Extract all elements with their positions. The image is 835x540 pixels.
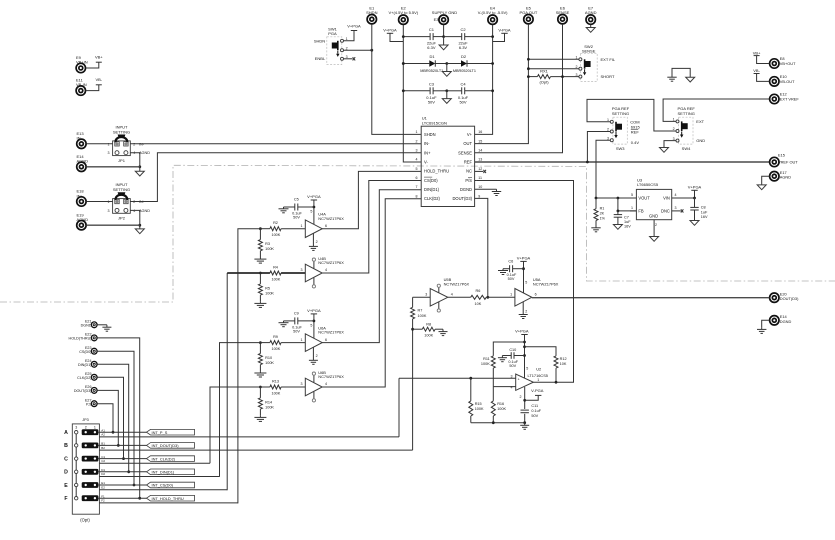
svg-text:VREF OUT: VREF OUT (778, 160, 798, 165)
turret E6 SENSE (558, 15, 567, 24)
capacitor C3 (403, 90, 430, 92)
svg-text:MBR0520LT1: MBR0520LT1 (453, 69, 476, 73)
wire U4B input from JP3 E (226, 273, 228, 490)
svg-text:VB-OUT: VB-OUT (780, 79, 795, 84)
wire SW3 pin2 to REF (587, 132, 610, 163)
svg-text:NC7WZ17P6X: NC7WZ17P6X (318, 330, 344, 335)
svg-text:R2: R2 (273, 221, 278, 225)
turret E5 PGA OUT (524, 15, 533, 24)
svg-text:C8: C8 (701, 206, 706, 210)
svg-text:C6: C6 (508, 259, 513, 263)
buffer U5B NC7WZ17P6X (430, 289, 448, 307)
net flag INT_HOLD_THRU (147, 495, 195, 501)
resistor R1 (594, 209, 598, 221)
ground under R10 (259, 365, 261, 372)
svg-text:VOUT: VOUT (638, 196, 650, 201)
net flag INT_CLK(D2) (147, 456, 195, 462)
svg-text:R15: R15 (475, 402, 482, 406)
ground under E3 node (443, 37, 445, 45)
JP3 row E jumper (82, 482, 99, 488)
capacitor C11 0.1uF (524, 400, 526, 409)
svg-text:R8: R8 (426, 322, 431, 326)
wire JP3 pin3 chain (75, 474, 77, 484)
wire JP1 pin2 to U1 IN- (130, 143, 421, 145)
svg-text:3: 3 (416, 149, 418, 153)
svg-text:D2: D2 (461, 54, 467, 59)
svg-text:C11: C11 (531, 404, 538, 408)
resistor R16 100K (492, 387, 494, 401)
wire E27 to JP3 (97, 404, 113, 433)
svg-text:-: - (518, 386, 519, 390)
turret E21 DGND (91, 322, 97, 328)
svg-text:NC7WZ17P6X: NC7WZ17P6X (318, 374, 344, 379)
turret E22 HOLD(THRU) (91, 335, 97, 341)
turret E7 AGND (586, 15, 595, 24)
turret E24 DIN(D1) (91, 361, 97, 367)
ground under R14 (259, 409, 261, 416)
resistor R9 100K (270, 341, 281, 345)
svg-text:A2: A2 (101, 433, 105, 437)
turret E26 DOUT(D3) (91, 388, 97, 394)
wire U6A out to U1 DIN (322, 190, 421, 343)
turret E10 VB-OUT (770, 77, 779, 86)
svg-text:IN+: IN+ (77, 193, 84, 198)
svg-text:6: 6 (535, 293, 537, 297)
switch SW1 PGA (327, 37, 342, 65)
svg-text:DOUT(D3): DOUT(D3) (452, 196, 472, 201)
switch SW4 PGA REF SETTING (679, 117, 693, 144)
svg-text:5: 5 (525, 280, 527, 284)
buffer U5A NC7WZ17P6X (515, 289, 532, 307)
JP3 row B pin3 (75, 444, 78, 447)
wire E5 to SW2 pin2 (528, 68, 579, 70)
svg-text:R4: R4 (273, 265, 278, 269)
resistor RX1 (Opt) (528, 76, 537, 78)
svg-text:NC7WZ17P6X: NC7WZ17P6X (533, 281, 559, 286)
svg-text:11: 11 (478, 176, 482, 180)
wire U4B out to U1 CS (322, 181, 421, 274)
turret E12 EXT VREF (770, 94, 779, 103)
power flag V+PGA at SW1 (351, 30, 357, 32)
svg-text:R12: R12 (560, 357, 567, 361)
wire JP3 row A pin2 branch (99, 436, 399, 438)
turret E25 CLK(D2) (91, 374, 97, 380)
svg-text:E15: E15 (778, 153, 785, 158)
svg-text:4: 4 (325, 382, 327, 386)
svg-text:DOUT(D3): DOUT(D3) (74, 389, 92, 393)
svg-text:5: 5 (526, 367, 528, 371)
svg-text:C9: C9 (294, 311, 299, 315)
svg-text:IN-: IN- (424, 141, 430, 146)
wire JP2 pin2 to U1 IN+ (130, 153, 421, 202)
resistor R4 100K (270, 271, 281, 275)
svg-text:PGA: PGA (328, 31, 337, 36)
wire E6 vertical to U1 pin14 (475, 24, 563, 153)
svg-text:DGND: DGND (780, 319, 792, 324)
wire U2 pin3 row (399, 377, 516, 379)
U1 pin9 DOUT wire down (475, 198, 488, 297)
wire E25 to JP3 (97, 377, 123, 458)
wire JP3 pin3 chain (75, 434, 77, 444)
wire JP3 pin3 chain (75, 487, 77, 497)
svg-text:5: 5 (310, 210, 312, 214)
node at R9 (259, 341, 262, 344)
svg-text:SETTING: SETTING (113, 187, 130, 192)
power flag VB+ (96, 61, 102, 63)
svg-text:VB+IN: VB+IN (76, 60, 88, 65)
svg-text:C1: C1 (429, 27, 435, 32)
svg-text:1: 1 (416, 130, 418, 134)
JP3 row F pin3 (75, 497, 78, 500)
wire JP1 pin4 to ground (130, 153, 140, 172)
wire E11 to VB- flag (86, 85, 99, 91)
svg-text:4: 4 (416, 158, 418, 162)
wire SW1 pin1 to V+PGA flag (344, 31, 355, 41)
diode D1 MBR0520LT1 (403, 63, 429, 65)
turret E2 V+ (399, 15, 408, 24)
svg-text:16: 16 (478, 130, 482, 134)
svg-text:2: 2 (525, 310, 527, 314)
svg-text:F2: F2 (101, 499, 105, 503)
svg-text:10K: 10K (475, 302, 482, 306)
svg-text:INT_CLK(D2): INT_CLK(D2) (152, 456, 176, 461)
wire E3 vertical (443, 25, 445, 37)
resistor R8 100K (413, 328, 423, 330)
svg-text:AGND: AGND (77, 159, 89, 164)
svg-text:1: 1 (537, 378, 539, 382)
svg-text:1uF: 1uF (701, 210, 708, 214)
U3 pin3 DNC (672, 210, 681, 212)
svg-text:V-(0.5V to -5.5V): V-(0.5V to -5.5V) (478, 10, 508, 15)
svg-text:100K: 100K (475, 407, 484, 411)
wire A branch up to U2 pin3 (398, 378, 400, 437)
svg-text:VB+OUT: VB+OUT (780, 61, 796, 66)
svg-text:AGND: AGND (77, 217, 89, 222)
svg-text:1: 1 (631, 206, 633, 210)
svg-text:R9: R9 (273, 335, 278, 339)
U1 pin12 NC stub (475, 170, 484, 172)
ground at C9 (283, 321, 285, 323)
svg-text:REF: REF (631, 130, 640, 135)
net flag INT_DIN(D1) (147, 469, 195, 475)
svg-text:15: 15 (478, 139, 482, 143)
diode D2 MBR0520LT1 (447, 63, 461, 65)
svg-text:CS(D0): CS(D0) (424, 178, 438, 183)
svg-text:SHORT: SHORT (601, 74, 615, 79)
resistor R5 100K (259, 273, 261, 284)
svg-text:C10: C10 (509, 348, 516, 352)
turret E14 DGND (770, 316, 779, 325)
svg-text:VB-IN: VB-IN (76, 82, 87, 87)
svg-text:2: 2 (316, 354, 318, 358)
wire E5 to SW2 pin1 (528, 58, 579, 60)
wire JP3 row A to flag (98, 431, 146, 433)
svg-text:SUPPLY GND: SUPPLY GND (432, 10, 458, 15)
voltage reference U3 LT6650CS5 box (636, 189, 671, 219)
turret E15 VREF OUT (770, 157, 779, 166)
wire JP3 row B to flag (98, 444, 146, 446)
wire SW1 pin2 to E1 (344, 49, 372, 51)
svg-text:INT_DOUT(D3): INT_DOUT(D3) (152, 443, 180, 448)
svg-text:SETTING: SETTING (113, 129, 130, 134)
svg-text:HOLD_THRU: HOLD_THRU (424, 169, 449, 174)
svg-text:R7: R7 (418, 309, 423, 313)
svg-text:2K: 2K (600, 211, 605, 215)
buffer U6A NC7WZ17P6X (305, 334, 322, 352)
svg-text:1uF: 1uF (624, 220, 631, 224)
turret E20 DOUT(D3) (770, 293, 779, 302)
svg-text:LT6650CS5: LT6650CS5 (637, 182, 659, 187)
turret E9 VB+IN (76, 63, 85, 72)
svg-text:GND: GND (649, 214, 658, 219)
resistor R10 100K (259, 343, 261, 354)
svg-text:R10: R10 (265, 356, 272, 360)
svg-text:B: B (64, 443, 68, 449)
svg-text:DGND: DGND (81, 324, 92, 328)
svg-text:100K: 100K (481, 362, 490, 366)
ground pin2 U6A (312, 347, 314, 360)
wire E26 to JP3 (97, 390, 118, 445)
svg-text:SW3: SW3 (616, 146, 625, 151)
wire JP3 row F pin2 branch (99, 502, 238, 504)
svg-text:JP1: JP1 (118, 158, 126, 163)
ground at R8 (442, 329, 444, 331)
switch SW3 PGA REF SETTING (613, 117, 627, 144)
JP3 row F jumper (82, 495, 99, 501)
svg-text:4: 4 (675, 193, 677, 197)
svg-text:AGND: AGND (139, 209, 150, 213)
svg-text:50V: 50V (531, 414, 538, 418)
svg-text:VB+: VB+ (95, 55, 103, 60)
turret E18 IN+ (77, 197, 86, 206)
resistor R11 100K (493, 342, 524, 356)
wire E23 to JP3 (97, 351, 134, 485)
ground at C10 (501, 356, 503, 358)
svg-text:FB: FB (638, 209, 644, 214)
wire U2 output to P/S (476, 181, 573, 383)
jumper block JP3 outline (72, 424, 99, 514)
ground under R3 (259, 251, 261, 258)
svg-text:(Opt): (Opt) (80, 518, 90, 523)
wire U5B out to R6 (448, 296, 471, 298)
svg-text:EXT FIL: EXT FIL (601, 57, 616, 62)
resistor R7 100K (412, 297, 414, 307)
svg-text:SETTING: SETTING (612, 111, 629, 116)
wire U6A input from JP3 D (220, 343, 261, 477)
wire JP3 row D to flag (98, 471, 146, 473)
JP3 row A jumper (82, 429, 99, 435)
ground at E7 (590, 25, 592, 28)
svg-text:6: 6 (325, 338, 327, 342)
svg-text:50V: 50V (508, 277, 515, 281)
ground under C3 C4 node (446, 91, 448, 99)
wire E9 to VB+ flag (86, 62, 99, 68)
svg-text:V-: V- (424, 160, 429, 165)
wire SW3 pin3 to U3 VOUT (596, 140, 610, 198)
svg-text:1%: 1% (600, 216, 606, 220)
svg-text:A: A (64, 430, 68, 436)
svg-text:INT_HOLD_THRU: INT_HOLD_THRU (152, 496, 184, 501)
wire JP3 row D pin2 branch (99, 476, 219, 478)
svg-text:2: 2 (316, 240, 318, 244)
wire E14 to ground node (86, 166, 139, 168)
svg-text:AGND: AGND (780, 175, 791, 180)
svg-text:VB+: VB+ (753, 50, 761, 55)
svg-text:OUT: OUT (463, 141, 472, 146)
resistor R14 100K (259, 387, 261, 398)
svg-text:100K: 100K (418, 314, 427, 318)
svg-text:D1: D1 (429, 54, 435, 59)
wire U5B input (413, 296, 431, 298)
svg-text:V-PGA: V-PGA (531, 388, 544, 393)
wire SW4 pin1 to E12 (663, 99, 769, 121)
wire JP2 pin4 to ground (130, 210, 140, 229)
svg-text:DGND: DGND (460, 187, 472, 192)
wire E13 to JP1 (86, 143, 112, 145)
svg-text:10: 10 (478, 185, 482, 189)
svg-text:13: 13 (478, 158, 482, 162)
svg-text:EXT VREF: EXT VREF (780, 97, 800, 102)
demo board outline (0, 165, 835, 302)
ground pin2 U4A (312, 233, 314, 246)
wire E5 vertical to U1 pin15 (475, 24, 529, 143)
resistor R12 10K (525, 347, 557, 356)
ground under R1 (595, 221, 597, 227)
svg-text:100K: 100K (265, 291, 274, 295)
wire U4A input from JP3 F (238, 229, 261, 504)
capacitor C10 0.1uF (514, 355, 525, 357)
U3 pin4 VIN (672, 197, 695, 199)
wire E22 to JP3 (97, 338, 139, 498)
svg-text:GND: GND (696, 138, 705, 143)
JP3 row D pin3 (75, 470, 78, 473)
JP3 row D jumper (82, 469, 99, 475)
svg-text:U2: U2 (536, 367, 541, 372)
resistor R15 100K (470, 378, 472, 401)
ground under diode node (446, 64, 448, 72)
svg-text:JP3: JP3 (82, 418, 89, 422)
resistor R3 100K (259, 229, 261, 240)
svg-text:6: 6 (416, 176, 418, 180)
stub pins U4B (313, 261, 315, 268)
svg-text:SHDN: SHDN (314, 38, 325, 43)
svg-text:1: 1 (94, 426, 96, 430)
svg-text:CLK(D2): CLK(D2) (77, 376, 91, 380)
svg-text:50V: 50V (293, 329, 300, 333)
power flag VB- (96, 84, 102, 86)
wire JP3 row C pin2 branch (99, 462, 210, 464)
svg-text:2: 2 (85, 426, 87, 430)
JP3 row E pin3 (75, 483, 78, 486)
wire E2 vertical to U1 pin4 (403, 25, 421, 162)
U1 pin10 DGND ground (475, 188, 497, 190)
svg-text:SETTING: SETTING (678, 111, 695, 116)
svg-text:100K: 100K (271, 391, 280, 395)
svg-text:DIN(D1): DIN(D1) (424, 187, 440, 192)
svg-text:NC7WZ17P6X: NC7WZ17P6X (444, 281, 470, 286)
svg-text:R1: R1 (600, 206, 605, 210)
svg-text:100K: 100K (424, 334, 433, 338)
svg-text:100K: 100K (265, 361, 274, 365)
node at R4 (259, 272, 262, 275)
wire U5A out to E20 (532, 297, 770, 299)
capacitor C5 0.1uF (298, 206, 314, 208)
net flag INT_CS(D0) (147, 482, 195, 488)
svg-text:IN+: IN+ (424, 150, 431, 155)
wire U4A out to U1 HOLD_THRU (322, 171, 421, 228)
svg-text:50V: 50V (509, 364, 516, 368)
turret E17 AGND (770, 172, 779, 181)
svg-text:14: 14 (478, 149, 482, 153)
svg-text:1: 1 (301, 338, 303, 342)
svg-text:NC7WZ17P6X: NC7WZ17P6X (318, 216, 344, 221)
stub pins U6B (313, 375, 315, 382)
node at R13 (259, 386, 262, 389)
ground tie AGND (686, 77, 695, 82)
svg-text:NC7WZ17P6X: NC7WZ17P6X (318, 260, 344, 265)
svg-text:CS(D0): CS(D0) (79, 350, 91, 354)
svg-text:E3: E3 (434, 17, 440, 22)
turret E3 SUPPLY GND (439, 15, 448, 24)
svg-text:100K: 100K (265, 405, 274, 409)
svg-text:VB-: VB- (95, 77, 102, 82)
wire U6B input from JP3 C (210, 387, 260, 463)
svg-text:C: C (64, 456, 68, 462)
wire U6B out to U1 CLK (322, 199, 421, 387)
ground under R5 (259, 295, 261, 302)
svg-text:DOUT(D3): DOUT(D3) (780, 296, 799, 301)
svg-text:4: 4 (451, 293, 453, 297)
svg-text:12: 12 (478, 167, 482, 171)
wire E4 vertical to U1 pin16 (475, 25, 493, 135)
U3 pin5 VOUT (630, 197, 636, 199)
turret E27 P,S (91, 401, 97, 407)
ground under C7 (613, 225, 622, 230)
svg-text:R11: R11 (483, 357, 490, 361)
svg-text:V+: V+ (467, 132, 473, 137)
svg-text:3: 3 (425, 293, 427, 297)
turret E23 CS(D0) (91, 348, 97, 354)
svg-text:C4: C4 (460, 81, 466, 86)
svg-text:3: 3 (301, 268, 303, 272)
svg-text:0.1uF: 0.1uF (531, 409, 541, 413)
svg-text:MBR0520LT1: MBR0520LT1 (420, 69, 443, 73)
jumper JP2 (113, 199, 131, 214)
U1 P/S overline (468, 176, 472, 178)
svg-text:50V: 50V (293, 216, 300, 220)
svg-text:R3: R3 (265, 242, 270, 246)
capacitor C2 (444, 36, 462, 38)
buffer U6B NC7WZ17P6X (305, 378, 322, 396)
ground at C6 (502, 269, 504, 271)
wire JP3 row E to flag (98, 484, 146, 486)
svg-text:V+PGA: V+PGA (307, 308, 321, 313)
svg-text:IN-: IN- (77, 136, 83, 141)
capacitor C4 (447, 90, 462, 92)
JP3 row B jumper (82, 443, 99, 449)
svg-text:NC: NC (466, 169, 472, 174)
node at R2 (259, 227, 262, 230)
svg-text:16V: 16V (701, 215, 708, 219)
resistor R2 100K (270, 227, 281, 231)
JP3 row C jumper (82, 456, 99, 462)
svg-text:+: + (518, 377, 520, 381)
capacitor C8 (694, 198, 696, 207)
U1 pin13 REF wire to E15 (475, 161, 770, 163)
wire U3 VOUT node (596, 197, 636, 199)
svg-text:F: F (64, 496, 67, 502)
svg-text:V-PGA: V-PGA (498, 27, 511, 32)
